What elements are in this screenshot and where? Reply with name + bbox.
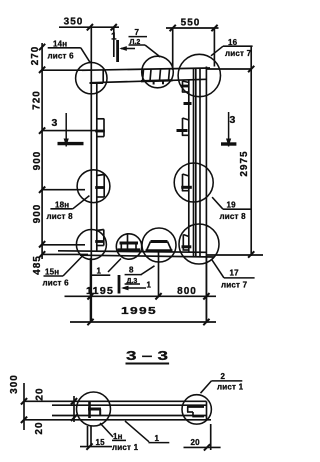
dim line 1995 <box>70 321 216 323</box>
label 17 лист 7 <box>211 259 254 289</box>
svg-text:270: 270 <box>30 46 41 66</box>
svg-text:1195: 1195 <box>86 286 114 297</box>
bottom-left extension line upper <box>42 244 85 246</box>
circle C7 bottom-mid-left <box>116 234 141 259</box>
ticks <box>39 44 45 50</box>
svg-text:20: 20 <box>34 421 45 434</box>
svg-text:20: 20 <box>191 438 201 447</box>
right column line 3 <box>195 69 197 257</box>
right column outer line with extension down <box>205 67 207 323</box>
beam bottom line with extensions <box>24 419 211 421</box>
beam top line with left extension <box>24 400 207 402</box>
svg-text:3: 3 <box>52 117 58 129</box>
svg-text:лист 7: лист 7 <box>225 49 252 58</box>
svg-text:900: 900 <box>32 151 43 171</box>
extensions down <box>90 258 92 323</box>
svg-text:19: 19 <box>227 201 237 210</box>
svg-text:350: 350 <box>64 17 84 28</box>
circle C5 mid-right <box>174 163 213 202</box>
hook detail inside C11 <box>187 407 204 417</box>
circle C3 top-right <box>178 54 220 96</box>
circle C10 section-left <box>77 392 111 426</box>
bracket L1 <box>95 119 105 137</box>
left dim line <box>23 383 25 430</box>
circle C1 top-left <box>76 62 107 93</box>
svg-text:800: 800 <box>177 286 197 297</box>
bracket R2 <box>177 118 189 135</box>
bottom beam top line <box>58 251 207 253</box>
bottom-right extension line <box>206 254 263 256</box>
dim 20 bottom right <box>184 424 221 451</box>
label 16 лист 7 <box>211 38 253 58</box>
extension lines <box>42 69 91 71</box>
weld dash under bracket R1 <box>184 102 192 105</box>
svg-text:2975: 2975 <box>239 150 250 176</box>
svg-text:1: 1 <box>155 434 160 443</box>
svg-text:15н: 15н <box>45 268 59 277</box>
svg-text:лист 7: лист 7 <box>221 281 248 290</box>
bracket R4 <box>182 235 192 251</box>
svg-text:20: 20 <box>35 387 46 400</box>
plate P1 (pi-shape) <box>118 233 141 252</box>
top-left corner gusset <box>102 70 104 82</box>
bracket L3 <box>95 230 104 246</box>
left column inner line <box>96 82 98 251</box>
bracket R3 <box>181 174 192 191</box>
extension 550 right <box>213 28 215 67</box>
extension 550 left <box>172 28 174 70</box>
circle C4 mid-left <box>77 170 110 203</box>
svg-text:550: 550 <box>181 18 201 29</box>
circle C8 bottom-mid-right <box>142 228 176 262</box>
dim line 1195/800 <box>65 295 217 297</box>
svg-text:1: 1 <box>147 281 152 290</box>
svg-text:лист 8: лист 8 <box>220 212 247 221</box>
svg-text:900: 900 <box>32 204 43 224</box>
dim 15 below C10 <box>80 426 112 450</box>
svg-text:1: 1 <box>97 267 102 276</box>
extension for 350 right <box>113 27 115 57</box>
right column line 1 (inner) <box>188 80 190 252</box>
bracket R1 <box>181 81 189 92</box>
svg-text:лист 6: лист 6 <box>48 52 75 61</box>
svg-text:лист 8: лист 8 <box>47 212 74 221</box>
svg-text:1995: 1995 <box>121 306 157 317</box>
svg-text:лист 1: лист 1 <box>112 443 139 452</box>
svg-text:3 – 3: 3 – 3 <box>126 348 168 363</box>
svg-text:15: 15 <box>96 438 106 447</box>
beam third line <box>52 415 207 417</box>
svg-text:3: 3 <box>230 114 236 126</box>
bottom beam bottom line <box>80 255 214 257</box>
right column line 2 <box>193 69 195 257</box>
svg-text:7: 7 <box>135 28 140 37</box>
leader from flag to circle C2 <box>145 45 160 57</box>
top beam top line <box>82 68 210 70</box>
step detail inside C10 <box>88 402 101 418</box>
circle C11 section-right <box>182 395 211 424</box>
circle C9 bottom-right <box>179 224 219 264</box>
svg-text:8: 8 <box>129 266 134 275</box>
section cut line bottom <box>118 275 121 294</box>
svg-text:лист 6: лист 6 <box>43 279 70 288</box>
right column line 4 <box>199 69 201 257</box>
label 18н лист 8 <box>47 196 90 221</box>
label 14н лист 6 <box>48 40 91 63</box>
beam right end cap <box>206 401 208 420</box>
bracket L2 <box>95 175 105 198</box>
beam second line <box>52 404 207 406</box>
svg-text:720: 720 <box>32 90 43 110</box>
svg-text:485: 485 <box>32 255 43 275</box>
circle C6 bottom-left <box>76 230 106 260</box>
dim line 350 <box>59 26 119 28</box>
svg-text:лист 1: лист 1 <box>217 383 244 392</box>
label 19 лист 8 <box>212 197 251 221</box>
plate P2 (trapezoid hat) <box>146 242 173 251</box>
svg-text:17: 17 <box>230 269 240 278</box>
label 15н лист 6 <box>43 255 84 288</box>
label 2 / лист 1 <box>201 372 244 393</box>
svg-text:2: 2 <box>221 372 226 381</box>
dim line 550 <box>166 27 219 29</box>
tick line at x=74 <box>73 396 75 422</box>
circle C2 top-middle <box>142 56 174 88</box>
labels 1н / лист 1 / 1 <box>100 421 169 452</box>
left column outer line with extensions <box>90 27 92 322</box>
svg-text:300: 300 <box>9 374 20 394</box>
top beam bottom line <box>92 79 207 82</box>
